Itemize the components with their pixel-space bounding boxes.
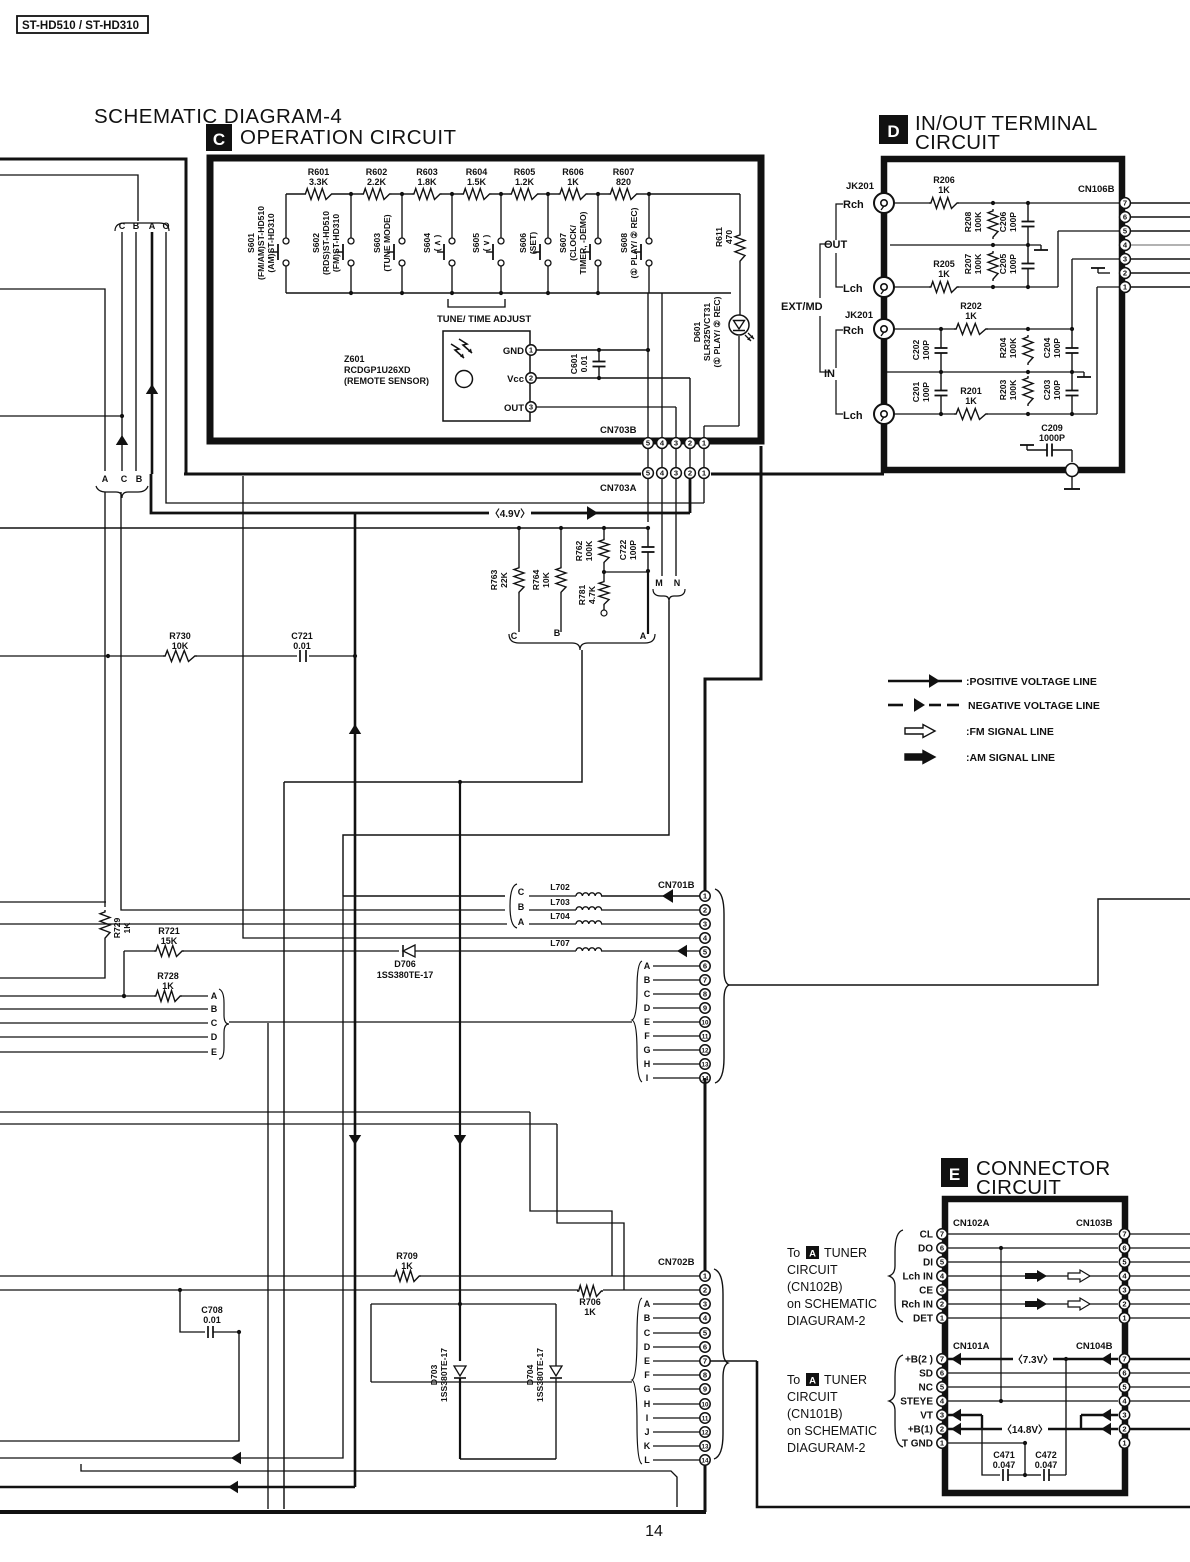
svg-text:(SET): (SET)	[528, 232, 538, 255]
switch S607	[558, 194, 601, 293]
wire Vcc row from Z601 pin2	[536, 376, 690, 380]
wire thick positive drop x355	[349, 513, 361, 1487]
wire node C vertical	[120, 232, 124, 471]
svg-text:R205: R205	[933, 259, 955, 269]
wire left edge y416 to node C	[0, 415, 122, 417]
svg-text:( ∨ ): ( ∨ )	[481, 234, 491, 251]
svg-text:F: F	[644, 1370, 650, 1380]
svg-text:K: K	[644, 1441, 651, 1451]
svg-text:7: 7	[703, 1357, 707, 1366]
resistor R601 3.3K	[304, 167, 334, 200]
wire top rail of switch resistors	[286, 192, 649, 196]
wire L702 arrow to pin1	[662, 889, 700, 903]
wire row1 R709 line	[0, 1275, 700, 1277]
svg-text:3: 3	[674, 439, 678, 448]
svg-text:1K: 1K	[965, 311, 977, 321]
svg-text:R607: R607	[613, 167, 635, 177]
svg-text:14: 14	[702, 1458, 709, 1465]
svg-text:R729: R729	[112, 918, 122, 939]
svg-text:2: 2	[940, 1425, 944, 1434]
resistor R730 10K	[163, 631, 197, 662]
svg-text::AM SIGNAL LINE: :AM SIGNAL LINE	[966, 752, 1055, 764]
connector CN106B pins 7-1	[1120, 198, 1131, 293]
svg-text:( ∧ ): ( ∧ )	[432, 234, 442, 251]
svg-text:3: 3	[1122, 1411, 1126, 1420]
resistor R203 100K	[998, 376, 1033, 406]
resistor R764 10K	[531, 528, 566, 632]
svg-text:2: 2	[688, 469, 692, 478]
switch S608	[619, 194, 652, 293]
svg-text:R602: R602	[366, 167, 388, 177]
svg-text:CN101A: CN101A	[953, 1341, 990, 1352]
connector circuit box E border	[945, 1199, 1125, 1493]
svg-text:CN701B: CN701B	[658, 880, 695, 891]
resistor R781 4.7K	[577, 570, 609, 616]
svg-text:2: 2	[703, 1286, 707, 1295]
svg-text:3.3K: 3.3K	[309, 177, 329, 187]
svg-text:B: B	[644, 1313, 651, 1323]
switch S601	[246, 194, 289, 293]
node bracket C B A mid	[509, 628, 655, 650]
svg-text:R606: R606	[562, 167, 584, 177]
brace To A TUNER CIRCUIT CN101B	[889, 1355, 903, 1447]
svg-text:2: 2	[1122, 1425, 1126, 1434]
svg-text:0.047: 0.047	[1035, 1460, 1058, 1470]
wire thick CN703A to D box	[711, 473, 884, 476]
resistor R208 100K	[963, 209, 998, 239]
resistor R762 100K	[574, 528, 609, 572]
wire OUT jack sleeve column	[883, 213, 885, 277]
svg-text:C206: C206	[998, 212, 1008, 233]
svg-text:CN102A: CN102A	[953, 1218, 990, 1229]
resistor R205 1K	[929, 259, 959, 293]
switch S605	[471, 194, 504, 293]
resistor R604 1.5K	[462, 167, 492, 200]
wire 4.9V rail y528	[0, 526, 650, 530]
svg-text:R605: R605	[514, 167, 536, 177]
switch S603	[372, 194, 405, 293]
svg-text:Rch: Rch	[843, 199, 864, 211]
svg-text:C472: C472	[1035, 1450, 1057, 1460]
svg-text:VT: VT	[920, 1411, 933, 1422]
jack JK201 OUT Rch	[843, 193, 894, 213]
capacitor C206 100P	[998, 203, 1035, 245]
wire thick bus right of op box	[705, 446, 761, 891]
svg-text:L: L	[644, 1455, 650, 1465]
svg-text:CIRCUIT: CIRCUIT	[976, 1176, 1061, 1199]
label Z601 RCDGP1U26XD REMOTE SENSOR	[344, 354, 429, 386]
inductor L703	[529, 897, 700, 910]
svg-text:C471: C471	[993, 1450, 1015, 1460]
resistor R729 1K	[100, 910, 132, 940]
svg-text:H: H	[644, 1059, 651, 1069]
svg-text:10: 10	[702, 1402, 709, 1409]
svg-text:D704: D704	[525, 1365, 535, 1386]
svg-text:TIMER, -DEMO): TIMER, -DEMO)	[578, 211, 588, 274]
svg-text:EXT/MD: EXT/MD	[781, 301, 823, 313]
svg-text:O: O	[162, 221, 169, 231]
signal arrows on Rch IN row	[1025, 1298, 1090, 1310]
capacitor C205 100P	[998, 245, 1035, 287]
svg-text:〈4.9V〉: 〈4.9V〉	[490, 507, 531, 520]
svg-text:100K: 100K	[584, 540, 594, 561]
svg-text:DIAGURAM-2: DIAGURAM-2	[787, 1314, 866, 1328]
svg-text:CN703A: CN703A	[600, 483, 637, 494]
wire Lch OUT row to pin5	[894, 231, 1120, 289]
svg-text::FM SIGNAL LINE: :FM SIGNAL LINE	[966, 726, 1054, 738]
connector CN702B pins 1-14	[700, 1271, 710, 1465]
svg-text:J: J	[644, 1427, 649, 1437]
connector CN703B pins 5-1	[643, 438, 710, 449]
legend FM signal line arrow	[905, 725, 1054, 739]
svg-text:1.5K: 1.5K	[467, 177, 487, 187]
resistor R605 1.2K	[510, 167, 540, 200]
section C header OPERATION CIRCUIT	[206, 124, 457, 151]
wire SD row	[948, 1372, 1118, 1374]
svg-text:E: E	[644, 1017, 650, 1027]
svg-text:L707: L707	[550, 938, 570, 948]
svg-text:8: 8	[703, 990, 707, 999]
svg-text:A: A	[809, 1376, 816, 1387]
svg-text:NC: NC	[919, 1383, 933, 1394]
svg-text:6: 6	[703, 1343, 707, 1352]
svg-text:S601: S601	[246, 233, 256, 253]
svg-text:on SCHEMATIC: on SCHEMATIC	[787, 1424, 877, 1438]
capacitor C209 1000P	[1020, 423, 1072, 462]
wire Vcc drop to pin2	[689, 378, 691, 438]
wire top rail extension to R611	[647, 192, 740, 196]
wire node B vertical	[135, 232, 137, 471]
resistor R709 1K	[393, 1251, 421, 1282]
svg-text::POSITIVE VOLTAGE LINE: :POSITIVE VOLTAGE LINE	[966, 676, 1097, 688]
wire CN703A pin5 to rail	[647, 479, 649, 522]
wire row C long to bus	[267, 1023, 269, 1509]
wire left edge y902	[0, 901, 106, 903]
svg-text:3: 3	[940, 1411, 944, 1420]
svg-text:R207: R207	[963, 254, 973, 275]
svg-text:14: 14	[645, 1523, 663, 1540]
pin GND 1 of Z601	[503, 345, 536, 357]
svg-text:S606: S606	[518, 233, 528, 253]
svg-text:(TUNE MODE): (TUNE MODE)	[382, 214, 392, 271]
svg-text:(FM)ST-HD310: (FM)ST-HD310	[331, 214, 341, 272]
wire thick bus top left	[0, 159, 186, 474]
svg-text:To: To	[787, 1246, 800, 1260]
svg-text:1SS380TE-17: 1SS380TE-17	[439, 1348, 449, 1402]
bracket CN702B right paren	[714, 1269, 728, 1459]
node letters A-I for CN701B	[643, 961, 700, 1083]
bracket A-L left brace	[632, 1298, 642, 1464]
wire node A2 down to R729	[104, 492, 106, 907]
svg-text:〈7.3V〉: 〈7.3V〉	[1013, 1353, 1054, 1366]
remote sensor Z601 box	[443, 331, 530, 421]
svg-text:DI: DI	[923, 1258, 933, 1269]
title SCHEMATIC DIAGRAM-4	[94, 105, 342, 128]
resistor R706 1K	[577, 1286, 603, 1318]
svg-text:D601: D601	[692, 322, 702, 343]
svg-text:0.01: 0.01	[293, 641, 311, 651]
wire left edge y175 into bracket	[0, 175, 138, 221]
wire stair row1	[0, 1112, 612, 1276]
wire mid vertical x343	[0, 896, 343, 1464]
wire node C down to row2 corner	[121, 492, 505, 910]
connector CN702B label	[658, 1257, 695, 1268]
svg-text:RCDGP1U26XD: RCDGP1U26XD	[344, 365, 411, 375]
svg-text:100P: 100P	[628, 540, 638, 560]
node bracket C B A at L702	[510, 884, 525, 928]
pin OUT 3 of Z601	[504, 402, 536, 414]
wire mid bus to row1	[283, 782, 285, 1509]
wire VT row steps	[948, 1409, 1118, 1429]
svg-text:L704: L704	[550, 911, 570, 921]
svg-text:G: G	[643, 1384, 650, 1394]
svg-text:+B(1): +B(1)	[908, 1425, 933, 1436]
resistor R606 1K	[558, 167, 588, 200]
svg-text:2: 2	[703, 906, 707, 915]
svg-text:13: 13	[702, 1444, 709, 1451]
wire row3 from left edge	[0, 923, 507, 925]
svg-text:R764: R764	[531, 570, 541, 591]
svg-text:+B(2 ): +B(2 )	[905, 1355, 933, 1366]
svg-text:C203: C203	[1042, 380, 1052, 401]
bracket A-E right brace	[219, 989, 229, 1059]
svg-text:12: 12	[702, 1430, 709, 1437]
capacitor C721 0.01	[291, 631, 313, 662]
labels CN101A pin names	[900, 1355, 933, 1450]
wire row4 from stair	[243, 476, 700, 938]
wires CN102A to CN103B rows	[948, 1234, 1118, 1318]
svg-text:H: H	[644, 1399, 651, 1409]
wire row2 R706 line	[0, 1288, 700, 1292]
svg-text:470: 470	[724, 230, 734, 245]
svg-text:0.047: 0.047	[993, 1460, 1016, 1470]
svg-text:OUT: OUT	[824, 239, 848, 251]
wires CN103B rows to page edge	[1130, 1234, 1190, 1318]
svg-text:CN702B: CN702B	[658, 1257, 695, 1268]
svg-text:S605: S605	[471, 233, 481, 253]
svg-text:100P: 100P	[1008, 254, 1018, 274]
section E header CONNECTOR CIRCUIT	[941, 1157, 1110, 1199]
resistor R201 1K	[954, 386, 988, 420]
connector CN101A label	[953, 1341, 990, 1352]
svg-text:R204: R204	[998, 338, 1008, 359]
svg-text:D703: D703	[429, 1365, 439, 1386]
wire R730 row	[0, 654, 357, 658]
svg-text:GND: GND	[503, 346, 524, 357]
svg-text:E: E	[644, 1356, 650, 1366]
node letters A-L for CN702B	[643, 1299, 700, 1465]
labels CN102A pin names	[901, 1230, 933, 1325]
model label box ST-HD510 / ST-HD310	[17, 16, 148, 33]
wire stair row2	[0, 1124, 624, 1290]
signal arrows on Lch IN row	[1025, 1270, 1090, 1282]
svg-text:10K: 10K	[541, 571, 551, 588]
svg-text:CN703B: CN703B	[600, 425, 637, 436]
svg-text:(CLOCK/: (CLOCK/	[568, 224, 578, 260]
svg-text:(FM/AM)ST-HD510: (FM/AM)ST-HD510	[256, 206, 266, 280]
diode D703 1SS380TE-17	[429, 780, 466, 1459]
svg-text:CN106B: CN106B	[1078, 184, 1115, 195]
svg-text:JK201: JK201	[846, 181, 875, 192]
wire R762 to C722 link	[604, 569, 650, 573]
wire D70x top rail	[371, 1302, 556, 1382]
wires CN104B rows to page edge	[1130, 1359, 1190, 1429]
svg-text:6: 6	[1122, 1369, 1126, 1378]
svg-text:L702: L702	[550, 882, 570, 892]
svg-text:A: A	[640, 631, 647, 641]
wire R729 to left edge	[0, 940, 105, 978]
svg-text:7: 7	[1122, 1355, 1126, 1364]
svg-text:R728: R728	[157, 971, 179, 981]
svg-text:E: E	[211, 1047, 217, 1057]
svg-text:100P: 100P	[1008, 212, 1018, 232]
resistor R728 1K	[122, 971, 182, 1002]
svg-text:A: A	[518, 917, 525, 927]
connector CN104B label	[1076, 1341, 1113, 1352]
svg-text:1K: 1K	[162, 981, 174, 991]
svg-text:NEGATIVE VOLTAGE LINE: NEGATIVE VOLTAGE LINE	[968, 700, 1100, 712]
connector CN104B pins	[1119, 1354, 1129, 1448]
svg-text:C: C	[644, 989, 651, 999]
svg-text:2.2K: 2.2K	[367, 177, 387, 187]
pin Vcc 2 of Z601	[507, 373, 536, 385]
svg-text:1K: 1K	[584, 1307, 596, 1317]
wire D601 to CN703B pin1	[704, 336, 739, 438]
wire IN jack sleeve column	[883, 339, 885, 404]
svg-text:IN: IN	[824, 368, 835, 380]
wire IN mid row with ground	[884, 370, 1091, 377]
svg-text:STEYE: STEYE	[900, 1397, 933, 1408]
capacitor C203 100P	[1042, 372, 1079, 414]
svg-text:C722: C722	[618, 540, 628, 561]
svg-text:6: 6	[1123, 213, 1127, 222]
svg-text:TUNE/ TIME ADJUST: TUNE/ TIME ADJUST	[437, 314, 531, 325]
svg-text:CN104B: CN104B	[1076, 1341, 1113, 1352]
svg-text:Vcc: Vcc	[507, 374, 524, 385]
svg-text:C: C	[213, 130, 225, 149]
svg-text:2: 2	[688, 439, 692, 448]
wire CN703B to CN703A links	[648, 448, 704, 468]
svg-text:(RDS)ST-HD510: (RDS)ST-HD510	[321, 211, 331, 275]
wire R721 row5	[124, 950, 154, 952]
wire Rch OUT row	[894, 201, 1120, 205]
page number 14	[645, 1523, 663, 1540]
jack JK201 OUT label	[846, 181, 875, 192]
svg-text:B: B	[136, 474, 143, 484]
capacitor C722 100P	[618, 528, 655, 571]
svg-text:T GND: T GND	[902, 1439, 933, 1450]
connector CN101A pins	[937, 1354, 947, 1448]
svg-text:7: 7	[1123, 199, 1127, 208]
svg-text:CL: CL	[920, 1230, 933, 1241]
wire thick arrow row bottom	[0, 1481, 355, 1493]
svg-text:1K: 1K	[965, 396, 977, 406]
svg-text:R721: R721	[158, 926, 180, 936]
svg-text:D: D	[211, 1032, 218, 1042]
svg-text:1.8K: 1.8K	[417, 177, 437, 187]
svg-text:7: 7	[703, 976, 707, 985]
wire node A vertical positive	[146, 232, 158, 474]
svg-text:4.7K: 4.7K	[587, 585, 597, 604]
svg-text:B: B	[518, 902, 525, 912]
svg-text:R206: R206	[933, 175, 955, 185]
wire node C stub to row A	[122, 951, 126, 998]
svg-text:C: C	[518, 887, 525, 897]
wire NC row	[948, 1386, 1118, 1388]
svg-text:B: B	[211, 1004, 218, 1014]
ground stub pin2 CN106B	[1091, 268, 1110, 273]
svg-text:〈14.8V〉: 〈14.8V〉	[1002, 1423, 1048, 1436]
svg-text:I: I	[646, 1073, 649, 1083]
svg-text:0.01: 0.01	[579, 355, 589, 372]
svg-text:CE: CE	[919, 1286, 933, 1297]
svg-text:M: M	[655, 578, 663, 588]
wire D703 D704 bottom link	[460, 1458, 556, 1460]
svg-text:CIRCUIT: CIRCUIT	[787, 1390, 838, 1404]
node bracket A C B lower	[96, 435, 148, 498]
svg-text:R763: R763	[489, 570, 499, 591]
connector CN703A pins 5-1	[643, 468, 710, 479]
svg-text:6: 6	[940, 1369, 944, 1378]
legend AM signal line arrow	[905, 751, 1055, 765]
wire thick bus CN701B to CN702B	[704, 1078, 707, 1512]
diode D706 1SS380TE-17	[184, 945, 540, 980]
svg-text:A: A	[102, 474, 109, 484]
svg-text:3: 3	[674, 469, 678, 478]
wire thick horizontal to CN703A	[184, 473, 641, 476]
svg-text:F: F	[644, 1031, 650, 1041]
svg-text:E: E	[949, 1165, 960, 1184]
svg-text:R208: R208	[963, 212, 973, 233]
switch S606	[518, 194, 551, 293]
bracket A-I left brace	[632, 961, 642, 1082]
wire node A3 to bracket	[647, 572, 649, 634]
svg-text:C721: C721	[291, 631, 313, 641]
svg-text:C: C	[211, 1018, 218, 1028]
svg-text:C601: C601	[569, 354, 579, 375]
connector CN106B label	[1078, 184, 1115, 195]
wire CN702B row7 to E box route	[710, 1361, 1190, 1507]
svg-text:S604: S604	[422, 233, 432, 253]
svg-text:TUNER: TUNER	[824, 1246, 867, 1260]
wire bottom rail of switches	[286, 291, 731, 295]
svg-text:100P: 100P	[921, 382, 931, 402]
svg-text:CIRCUIT: CIRCUIT	[787, 1263, 838, 1277]
jack JK201 IN Lch	[843, 404, 894, 424]
svg-text:2: 2	[940, 1300, 944, 1309]
connector CN703A label	[600, 483, 637, 494]
resistor R206 1K	[929, 175, 959, 209]
wire pin4 column	[661, 293, 663, 438]
svg-text:7: 7	[940, 1355, 944, 1364]
svg-text:R601: R601	[308, 167, 330, 177]
operation circuit box C border	[210, 158, 761, 441]
node rows A-E left	[0, 991, 218, 1057]
svg-text:S603: S603	[372, 233, 382, 253]
svg-text:6: 6	[703, 962, 707, 971]
wire OUT row from Z601 pin3	[536, 407, 676, 438]
svg-text:3: 3	[703, 1300, 707, 1309]
svg-text:R781: R781	[577, 585, 587, 606]
svg-text:R611: R611	[714, 227, 724, 247]
legend positive voltage line	[888, 674, 1097, 688]
LED D601 SLR325VCT31	[692, 263, 754, 367]
wire node O vertical	[166, 232, 704, 503]
svg-text:C: C	[644, 1328, 651, 1338]
wire 4.9V positive line	[151, 474, 690, 520]
svg-text:1K: 1K	[567, 177, 579, 187]
wire left edge y289 to node A2	[0, 289, 105, 471]
